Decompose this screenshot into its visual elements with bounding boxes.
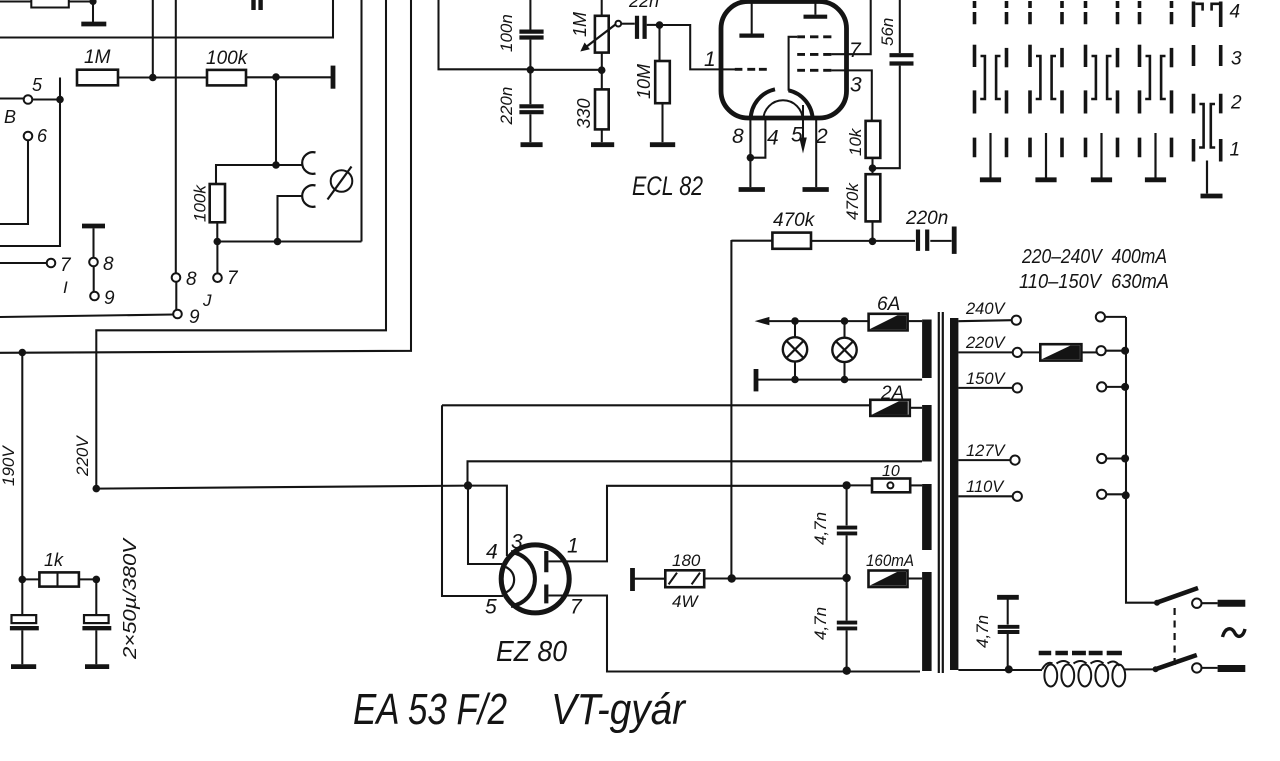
- switch link (dashed): [1173, 608, 1175, 666]
- svg-text:4,7n: 4,7n: [811, 607, 830, 640]
- svg-text:9: 9: [189, 307, 200, 328]
- resistor 10k: [866, 121, 881, 158]
- wire 100k bottom to rail: [216, 222, 218, 241]
- svg-text:100k: 100k: [191, 184, 210, 222]
- tube EZ80 envelope: [501, 545, 569, 613]
- svg-text:180: 180: [672, 551, 701, 570]
- wire lower jack contact down to rail: [278, 196, 303, 242]
- wire rail y=241.5: [217, 240, 361, 242]
- svg-text:1k: 1k: [44, 550, 64, 570]
- svg-text:9: 9: [104, 288, 115, 309]
- pin 4 lead: [750, 120, 765, 158]
- pentode grid row 1: [797, 35, 831, 38]
- EZ80 cathode arc: [511, 552, 535, 606]
- svg-text:4,7n: 4,7n: [811, 512, 830, 545]
- svg-text:ECL 82: ECL 82: [632, 171, 703, 201]
- svg-text:240V: 240V: [965, 300, 1007, 318]
- wire: vertical to terminal 8 (J group): [175, 0, 177, 273]
- wire 2A winding bottom return: [468, 461, 923, 485]
- wire from top down to 100n node: [439, 0, 531, 69]
- arrow (to dial lamps feed): [755, 317, 770, 325]
- svg-text:1: 1: [704, 48, 716, 71]
- svg-text:150V: 150V: [966, 370, 1007, 388]
- junction 190V: [19, 349, 27, 357]
- svg-text:8: 8: [103, 254, 114, 275]
- svg-text:2A: 2A: [880, 383, 904, 404]
- capacitor 4.7n (mains filter): [997, 595, 1019, 600]
- svg-text:2: 2: [1230, 93, 1242, 114]
- lamp bottom rail with chassis bar: [754, 369, 759, 391]
- switch bank unit 3: [1086, 1, 1118, 180]
- fuse 10 (with indicator): [847, 484, 872, 486]
- mains fuse on 220V row: [1022, 351, 1040, 353]
- wire jack node to 100k vertical resistor: [216, 165, 276, 184]
- svg-text:7: 7: [60, 255, 72, 276]
- connector end bar: [331, 66, 336, 89]
- wire node down to pin 4: [468, 486, 502, 564]
- svg-text:470k: 470k: [843, 182, 862, 220]
- svg-text:3: 3: [850, 74, 862, 97]
- tap 127V: [958, 459, 1010, 461]
- svg-text:470k: 470k: [773, 210, 816, 231]
- svg-text:220V: 220V: [965, 334, 1007, 352]
- switch bank unit 1: [975, 1, 1007, 180]
- jack upper contact arc: [302, 152, 315, 174]
- upper switch contact: [1192, 599, 1201, 608]
- junction 220V node: [93, 485, 101, 493]
- transformer secondary bar: [950, 318, 958, 670]
- resistor 470k (horizontal): [731, 240, 772, 242]
- wire: 220V rail from top, across, down to bottom left: [96, 0, 386, 489]
- svg-text:1: 1: [1230, 140, 1241, 161]
- wire heater feed: corner at 442 down to pin 5: [442, 405, 503, 596]
- capacitor 4.7n (upper): [846, 485, 848, 525]
- wire 100k to end bar: [246, 76, 331, 78]
- svg-text:EA 53 F/2: EA 53 F/2: [353, 685, 507, 734]
- lower switch blade: [1155, 655, 1197, 669]
- wire stub left of box: [0, 0, 31, 2]
- capacitor 100n: [529, 0, 531, 30]
- svg-text:7: 7: [227, 268, 239, 289]
- terminal 9 (I group): [90, 292, 99, 301]
- svg-text:220n: 220n: [497, 87, 516, 126]
- svg-text:5: 5: [32, 75, 43, 95]
- wire: vertical drop to 1M output node: [152, 0, 154, 78]
- wire: 190V rail from top, across to left edge: [0, 0, 411, 353]
- resistor 100k (horizontal): [207, 70, 246, 86]
- capacitor 22n: [621, 23, 635, 25]
- wire from 100k node down to jack node: [275, 77, 277, 165]
- svg-text:6A: 6A: [877, 294, 900, 315]
- wire node to pin 3: [468, 486, 507, 556]
- transformer core: [939, 312, 943, 673]
- svg-text:22n: 22n: [628, 0, 659, 11]
- junction: [56, 96, 64, 104]
- resistor 1k: [19, 576, 27, 584]
- svg-text:8: 8: [732, 125, 744, 148]
- svg-text:5: 5: [485, 596, 497, 619]
- electrolytic capacitor A (on 190V line): [12, 615, 37, 623]
- wire pin 7 down to bottom rail: [548, 596, 920, 672]
- wire from terminal 9 to left edge: [0, 315, 173, 318]
- lower output stub: [1202, 667, 1218, 669]
- 190V vertical wire: [21, 353, 23, 616]
- ground above terminal 8 (I group): [82, 224, 105, 229]
- electrolytic capacitor B (on 220V line): [95, 579, 97, 615]
- grid 3 lead to pin 3 and 10k: [831, 70, 871, 121]
- terminal 8 (J): [172, 273, 181, 282]
- transformer primary winding bars: [922, 320, 932, 379]
- fuse 2A: [870, 400, 910, 416]
- svg-text:4W: 4W: [672, 592, 699, 611]
- terminal 6: [24, 132, 33, 141]
- switch link 8-9: [175, 282, 177, 310]
- dial lamp 1: [783, 337, 807, 361]
- secondary bottom rail: [958, 669, 1042, 671]
- tap 150V: [958, 387, 1012, 389]
- svg-text:3: 3: [511, 531, 523, 554]
- junction at 160mA rail: [842, 574, 850, 582]
- wire lamp top rail: [768, 320, 869, 322]
- switch bank unit 4: [1140, 1, 1172, 180]
- svg-text:4,7n: 4,7n: [973, 615, 992, 648]
- svg-text:220n: 220n: [905, 208, 948, 229]
- svg-text:110–150V 630mA: 110–150V 630mA: [1019, 270, 1169, 293]
- wire B+ vertical from 470k to 180 node: [730, 240, 732, 579]
- wire 1M to 100k: [118, 76, 207, 78]
- wire: long horizontal bus y=37.5: [0, 0, 333, 38]
- resistor 10M: [658, 25, 660, 61]
- heater arc: [763, 100, 802, 120]
- junction on bottom rail: [843, 667, 851, 675]
- wire pot to 330: [601, 53, 603, 71]
- mains choke core dashes: [1039, 651, 1122, 656]
- junctions: [791, 317, 799, 325]
- capacitor 220n: [529, 70, 531, 104]
- pin 2 lead and ground: [815, 118, 817, 187]
- switch bank unit 2: [1030, 1, 1062, 180]
- switch link 8-9 (I group): [93, 266, 95, 291]
- pentode anode: [804, 15, 828, 19]
- svg-text:330: 330: [574, 98, 594, 128]
- terminal 5 lead: [0, 97, 24, 99]
- mains choke coil: [1042, 661, 1155, 687]
- wire: rail up to top edge: [360, 0, 362, 242]
- pentode grid row 2: [797, 53, 831, 56]
- junction at 10-fuse feed: [842, 481, 850, 489]
- tap 220V: [958, 351, 1012, 353]
- wire 5 to 1M: [32, 78, 60, 100]
- resistor 1M: [77, 70, 118, 86]
- junction EZ80 feed node: [464, 481, 472, 489]
- fuse 6A: [869, 314, 908, 331]
- EZ80 heater arc: [502, 566, 515, 594]
- svg-text:10M: 10M: [634, 64, 654, 99]
- wire node5 down to left edge: [0, 100, 60, 247]
- svg-text:1M: 1M: [84, 47, 111, 68]
- svg-text:7: 7: [570, 596, 583, 619]
- resistor 470k (vertical): [866, 174, 881, 221]
- tap 240V: [958, 320, 1011, 321]
- terminal 9 (J): [173, 310, 182, 319]
- connector end bar: [952, 227, 957, 254]
- wire box to ground node: [69, 0, 93, 2]
- upper switch blade: [1157, 588, 1198, 603]
- selector jumper terminals: [1096, 312, 1105, 321]
- EZ80 anode plates: [544, 551, 548, 603]
- wire to terminal 7 (J group): [216, 242, 218, 274]
- switch bank unit 5 (selector with contacts 4,3,2,1): [1194, 2, 1223, 197]
- svg-text:EZ 80: EZ 80: [496, 636, 567, 668]
- fuse 160mA: [869, 571, 908, 588]
- capacitor 220n (coupling): [918, 230, 927, 251]
- capacitor 4.7n (lower): [846, 578, 848, 621]
- wire to tube pin 1: [660, 25, 737, 69]
- svg-text:56n: 56n: [878, 18, 897, 46]
- svg-text:220–240V 400mA: 220–240V 400mA: [1021, 245, 1167, 268]
- svg-text:10k: 10k: [846, 127, 865, 156]
- junction: [527, 66, 535, 74]
- dial lamp 2: [832, 338, 856, 362]
- capacitor ticks (cut by top edge): [254, 0, 261, 10]
- wire terminal 6 down to left edge: [0, 140, 28, 224]
- wire node to 330/pot junction: [530, 69, 601, 71]
- pentode grid row 3: [797, 69, 831, 72]
- jack lower contact arc: [302, 185, 315, 207]
- svg-text:4: 4: [767, 127, 779, 150]
- lower switch contact: [1192, 663, 1201, 672]
- svg-text:160mA: 160mA: [866, 552, 914, 570]
- svg-text:10: 10: [882, 463, 900, 480]
- terminal 7 (J group): [213, 273, 222, 282]
- svg-text:I: I: [63, 278, 68, 297]
- terminal 7 (I group) lead: [0, 262, 47, 264]
- junction at jack: [272, 161, 280, 169]
- upper output stub: [1202, 602, 1218, 604]
- wire 220V node to EZ80 feed node: [96, 486, 468, 489]
- terminal 8 (I group): [89, 258, 98, 267]
- resistor 100k (vertical): [210, 184, 225, 222]
- svg-text:J: J: [202, 291, 212, 310]
- cathode arrow (pin 5): [802, 105, 804, 141]
- wire pin 1 to rectified output: [548, 486, 846, 562]
- svg-text:100n: 100n: [497, 14, 516, 52]
- svg-text:220V: 220V: [73, 435, 92, 477]
- pin 8 lead and ground: [749, 118, 751, 187]
- screen grid lead to pin 7: [831, 0, 870, 54]
- terminal 5: [24, 95, 33, 104]
- svg-text:8: 8: [186, 269, 197, 290]
- svg-text:5: 5: [791, 124, 803, 147]
- svg-text:1: 1: [567, 535, 579, 558]
- svg-text:1M: 1M: [570, 12, 590, 37]
- tube envelope ECL82: [721, 2, 847, 119]
- junction 180 to B+: [728, 574, 736, 582]
- junction: [272, 73, 280, 81]
- tap 110V: [958, 495, 1012, 497]
- svg-text:100k: 100k: [206, 48, 249, 69]
- ground: [92, 2, 94, 23]
- svg-text:3: 3: [1231, 49, 1242, 70]
- terminal 7 (I group): [47, 259, 56, 268]
- svg-text:110V: 110V: [966, 478, 1005, 496]
- wire 2A fuse feed: [442, 404, 870, 406]
- svg-text:B: B: [4, 107, 16, 127]
- jack plug (circle with slash): [331, 170, 353, 192]
- svg-text:2: 2: [815, 125, 828, 148]
- selector bus down to mains switch: [1126, 317, 1157, 603]
- junction: [89, 0, 96, 5]
- svg-text:VT-gyár: VT-gyár: [551, 685, 687, 734]
- pentode g1 internal lead: [789, 37, 798, 91]
- triode grid (dashes): [735, 68, 767, 71]
- svg-text:4: 4: [486, 541, 498, 564]
- svg-text:127V: 127V: [966, 442, 1007, 460]
- capacitor 56n: [899, 0, 901, 53]
- svg-text:6: 6: [37, 126, 48, 146]
- cathode dome (thick arcs): [751, 89, 775, 119]
- partial component box (cut by top edge): [31, 0, 69, 8]
- triode anode: [739, 33, 764, 37]
- AC symbol: [1223, 629, 1246, 637]
- wire jack node to upper jack contact: [276, 164, 302, 166]
- pot wiper terminal: [615, 21, 621, 27]
- svg-text:190V: 190V: [0, 445, 18, 486]
- resistor 330: [595, 89, 609, 129]
- potentiometer 1M: [601, 0, 603, 16]
- svg-text:2×50µ/380V: 2×50µ/380V: [120, 537, 140, 661]
- svg-text:7: 7: [849, 39, 862, 62]
- svg-text:4: 4: [1230, 2, 1241, 23]
- junction: [149, 74, 157, 82]
- resistor 180 4W with end bar: [630, 568, 635, 591]
